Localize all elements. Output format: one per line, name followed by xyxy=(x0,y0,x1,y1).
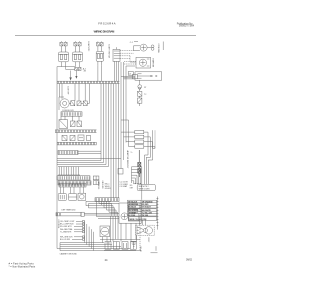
main wiring harness (hatched band) xyxy=(57,81,120,83)
connector J2 with X marks xyxy=(75,65,81,71)
svg-text:# = Fast-Acting Parts: # = Fast-Acting Parts xyxy=(9,263,35,266)
wire: arrow into harness xyxy=(69,71,77,81)
wire: harness feeds to defrost block xyxy=(121,74,137,79)
fresh food lamp E4 xyxy=(59,97,71,110)
defrost heater R1 xyxy=(135,72,162,80)
terminal dots row xyxy=(133,183,141,184)
wire: J4 outputs right xyxy=(78,151,101,153)
wire: lamp junction horizontals xyxy=(57,66,75,68)
fuse chain (dark) xyxy=(138,150,141,177)
info box left rows xyxy=(130,185,134,189)
PTC starter xyxy=(130,242,136,250)
svg-text:* = Non-Illustrated Parts: * = Non-Illustrated Parts xyxy=(9,266,36,269)
wire: center verticals down xyxy=(111,216,137,241)
svg-text:CABINET GROUND: CABINET GROUND xyxy=(60,253,78,256)
door switch S3 pair xyxy=(77,101,90,106)
harness band 3 (hatched) xyxy=(57,142,97,145)
condenser fan motor M1 xyxy=(140,44,154,51)
wire: harness drop bundle xyxy=(101,62,126,198)
wire: switch pins to right (dashed) xyxy=(120,51,134,62)
svg-text:WIRING DIAGRAM: WIRING DIAGRAM xyxy=(94,30,115,34)
wire: R2 to right xyxy=(84,213,119,215)
svg-text:C-3 EVAP: C-3 EVAP xyxy=(120,185,128,188)
freezer light socket E1 xyxy=(59,46,69,67)
control board terminal stack xyxy=(135,130,144,148)
svg-text:C3: C3 xyxy=(129,74,131,76)
aux switch S4 pair xyxy=(71,116,82,126)
heater bar R2 xyxy=(56,212,84,216)
wire: compressor down to ground xyxy=(136,236,138,242)
svg-text:BU--LID SW: BU--LID SW xyxy=(60,239,70,241)
svg-text:DEF TIMER 480: DEF TIMER 480 xyxy=(62,209,76,211)
run capacitor C2 xyxy=(122,242,128,250)
svg-text:EVAP FAN: EVAP FAN xyxy=(152,59,155,68)
wire: valve drops xyxy=(103,237,108,243)
wire: nested corners down to legend xyxy=(132,167,142,200)
info rounded box xyxy=(137,184,155,190)
connector strip J3 (hatched) xyxy=(61,112,82,116)
connector plug P2 (freezer light 2) xyxy=(74,41,81,46)
connector strip J5 (hatched, many pins) xyxy=(59,183,86,187)
wire: risers from switch block to harness xyxy=(98,61,119,81)
wire: dashed vertical at x140 xyxy=(139,203,141,251)
svg-text:PK PINK: PK PINK xyxy=(128,215,136,217)
relay K1 xyxy=(59,116,68,128)
svg-text:GN-GR: GN-GR xyxy=(105,188,111,190)
water valve solenoid xyxy=(100,226,110,237)
harness band 2 (hatched) xyxy=(55,130,97,133)
wire: leader lines to terminals xyxy=(72,221,85,241)
svg-text:RELAY: RELAY xyxy=(139,246,142,252)
wire: compressor feeds xyxy=(140,220,146,225)
compressor motor (dashed enclosure) xyxy=(136,225,155,235)
icemaker block xyxy=(119,203,141,223)
svg-text:LIGHT-FF: LIGHT-FF xyxy=(67,87,69,96)
mid text block right xyxy=(120,182,129,188)
svg-text:ADAPTIVE DEFROST: ADAPTIVE DEFROST xyxy=(126,151,129,170)
wire: defrost feed xyxy=(124,66,136,78)
svg-text:LIGHT SWITCH: LIGHT SWITCH xyxy=(108,45,110,59)
svg-text:COMP: COMP xyxy=(147,237,149,243)
mid tiny table xyxy=(105,184,111,190)
wire: feeds to evaporator fan xyxy=(124,62,136,65)
switch row xyxy=(62,135,91,141)
svg-text:COND FAN: COND FAN xyxy=(157,44,160,54)
connector plug P3 (fresh food light) xyxy=(97,41,104,46)
svg-text:WH--NEUTRAL: WH--NEUTRAL xyxy=(60,228,73,231)
wire: drops from harness to FF lamp area xyxy=(60,84,90,104)
start relay K2 xyxy=(69,194,77,201)
svg-text:FRS26R4A: FRS26R4A xyxy=(98,21,116,25)
ribbon connector grid xyxy=(58,167,80,175)
svg-text:CONN BLOCK: CONN BLOCK xyxy=(62,110,75,112)
overload protector OL xyxy=(105,242,111,250)
temperature control wire list xyxy=(60,221,75,241)
wire: feeds from bundle to stack xyxy=(121,120,135,147)
fresh food light socket E3 xyxy=(96,46,103,65)
wire: nested loops right of stack xyxy=(144,130,155,160)
svg-text:HARNESS: HARNESS xyxy=(97,181,100,190)
svg-text:GROUND: GROUND xyxy=(101,181,103,190)
start relay RS xyxy=(113,242,119,250)
terminal strip TB2 (hatched) xyxy=(58,181,91,185)
svg-text:09/02: 09/02 xyxy=(186,259,193,262)
wire: rows above to right xyxy=(86,201,119,208)
svg-text:VT VIOLET: VT VIOLET xyxy=(142,207,152,209)
wire: collected verticals going right xyxy=(85,221,94,250)
connector plug P1 (freezer light 1) xyxy=(60,41,67,46)
run capacitor C1 xyxy=(58,194,66,201)
wire: left main vertical xyxy=(56,67,58,249)
door switch S2 xyxy=(71,101,75,106)
wire: crossing horizontals xyxy=(57,159,121,167)
connector strip J4 (hatched) xyxy=(58,150,78,154)
resistor block pair xyxy=(93,176,99,185)
junction box xyxy=(118,169,123,175)
svg-text:BU BLUE: BU BLUE xyxy=(128,207,137,209)
wire: right riser pair to note box xyxy=(145,155,149,184)
connector label C-3 box xyxy=(128,72,133,76)
timer motor M3 xyxy=(78,193,86,200)
thermal cutout TCO xyxy=(138,89,142,96)
wire: stub right of condenser fan xyxy=(162,42,164,51)
light switch S1 block xyxy=(113,47,120,61)
svg-text:TN TAN: TN TAN xyxy=(142,214,149,217)
ground symbol G1 xyxy=(131,241,137,246)
defrost thermostat (bimetal) xyxy=(138,80,142,89)
wire: staircase bends below J6 xyxy=(97,202,120,219)
evaporator fan motor M2 xyxy=(136,57,151,68)
svg-text:CONTROL: CONTROL xyxy=(57,220,59,229)
header rule xyxy=(15,34,196,36)
connector strip J6 (hatched) xyxy=(95,198,119,202)
wire: pin drops from J5 xyxy=(61,187,84,193)
svg-text:LIGHT-FRZ: LIGHT-FRZ xyxy=(87,42,89,53)
svg-text:C-1: C-1 xyxy=(130,42,133,44)
wire color legend table xyxy=(128,200,157,221)
wire: bottom-left horizontal runs xyxy=(57,243,136,251)
svg-text:YL--FAN MTR: YL--FAN MTR xyxy=(60,230,72,233)
terminal strip TB1 (hatched) xyxy=(57,176,90,180)
svg-text:OR ORANGE: OR ORANGE xyxy=(142,200,154,203)
wire: bottom rails xyxy=(100,239,141,250)
defrost sensor xyxy=(138,96,142,106)
freezer light socket E2 xyxy=(73,46,83,67)
svg-text:5995377364: 5995377364 xyxy=(179,24,195,27)
wire: feeds to condenser fan xyxy=(134,46,141,51)
svg-text:WIRE CODES: WIRE CODES xyxy=(139,189,151,191)
svg-text:WIRE COLOR CODE: WIRE COLOR CODE xyxy=(130,219,148,221)
wire: right vertical with tick labels xyxy=(151,197,159,253)
svg-text:BK BLACK: BK BLACK xyxy=(128,200,138,203)
